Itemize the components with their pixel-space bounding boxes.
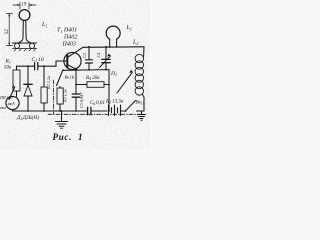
shield dashed box: [48, 80, 146, 114]
meter PA1: [0, 96, 19, 110]
switch Vk1: [125, 101, 145, 112]
wire: right vertical to coil: [143, 47, 145, 57]
antenna L1 physical drawing: base: [13, 43, 37, 51]
svg-text:С60,01: С60,01: [90, 101, 105, 106]
svg-text:Вк1з: Вк1з: [136, 101, 145, 106]
svg-text:П403: П403: [62, 41, 76, 48]
svg-text:19: 19: [21, 2, 27, 7]
wire: meter to rail: [12, 110, 14, 111]
antenna L1 physical drawing: left dimension: [5, 14, 12, 46]
wire: emitter row y70: [63, 69, 109, 72]
svg-text:С3: С3: [82, 53, 87, 58]
wire: vertical x109 down: [108, 70, 110, 111]
potentiometer R1: [4, 59, 20, 100]
antenna L1 physical drawing: loop head: [19, 10, 30, 21]
svg-text:Д1Д2Б(Н): Д1Д2Б(Н): [16, 114, 39, 121]
diode D1: [16, 66, 39, 121]
svg-text:П1: П1: [110, 71, 117, 77]
wire: rail from switch to coil: [142, 110, 145, 112]
wire: top rail: [83, 46, 144, 49]
resistor R4: [76, 75, 109, 87]
inductor L2 coil: [135, 54, 143, 95]
svg-text:R420к: R420к: [85, 75, 100, 81]
svg-text:50к: 50к: [4, 66, 12, 71]
wire: C1 line left: [17, 65, 35, 67]
junction dots: [27, 46, 117, 112]
svg-text:L1: L1: [126, 25, 132, 32]
battery B1: [105, 99, 125, 116]
svg-text:R1: R1: [5, 59, 11, 65]
capacitor C4 (trimmer): [96, 47, 111, 70]
wire: bottom rail left section: [13, 110, 88, 112]
wire: base lead down to C1 line: [55, 61, 57, 66]
arrow P1 (variable coil): [110, 70, 133, 93]
capacitor C5: [72, 70, 85, 111]
loop antenna symbol L1: [106, 26, 120, 47]
svg-text:С4: С4: [96, 53, 101, 58]
svg-text:52: 52: [5, 29, 10, 35]
resistor R3: [57, 87, 69, 112]
svg-text:T1П401: T1П401: [57, 27, 77, 35]
capacitor C3: [82, 47, 93, 70]
label T1 transistor types: [57, 27, 77, 48]
svg-text:ИП-100: ИП-100: [0, 96, 13, 100]
svg-text:C110: C110: [32, 57, 44, 63]
capacitor C6: [88, 101, 107, 115]
wire: coil bottom to rail: [143, 95, 145, 112]
antenna L1 physical drawing: top dimension: [13, 2, 36, 9]
svg-text:Вк1Б: Вк1Б: [65, 75, 75, 80]
capacitor C1: [32, 57, 57, 70]
svg-text:Рис. 1: Рис. 1: [53, 132, 84, 142]
svg-text:мка: мка: [0, 106, 6, 110]
svg-text:П402: П402: [63, 34, 77, 41]
resistor R2: [41, 66, 52, 111]
svg-text:мкА: мкА: [7, 101, 16, 106]
antenna L1 physical drawing: stem: [19, 20, 31, 43]
svg-text:L2: L2: [132, 40, 138, 47]
transistor T1: [56, 47, 83, 70]
ground (right): [138, 111, 146, 120]
switch V1: [57, 69, 75, 85]
svg-text:Б113,5в: Б113,5в: [105, 99, 124, 105]
ground (center, chassis): [56, 110, 68, 128]
svg-text:L1: L1: [41, 22, 47, 29]
